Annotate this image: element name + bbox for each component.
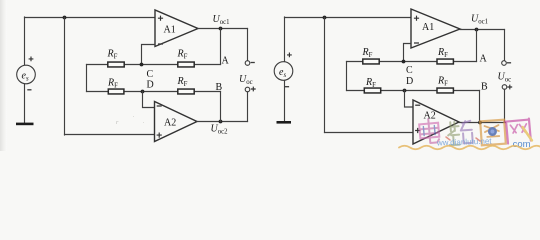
wire left vertical from top rail to source ES2 — [284, 17, 286, 62]
bridge row 1 wire (right circuit) — [347, 61, 477, 63]
svg-text:C: C — [147, 69, 154, 80]
watermark logo 电路图网 — [399, 118, 540, 150]
resistor RF1 (row1 left) — [108, 62, 124, 67]
op-amp A1 — [155, 10, 198, 47]
node Uoc2 junction dot — [219, 120, 223, 124]
svg-text:B: B — [481, 82, 488, 93]
svg-text:D: D — [147, 80, 154, 91]
bridge row 2 wire (right circuit) — [347, 90, 480, 92]
wire node B vertical (row2 down to Uoc2 line) — [220, 92, 222, 122]
wire node B vertical (right circuit) — [479, 91, 481, 123]
wire top rail left circuit — [25, 17, 156, 19]
svg-text:B: B — [216, 82, 223, 93]
wire A2 output — [197, 121, 248, 123]
wire bracket vertical (right circuit) — [346, 62, 348, 91]
bridge row 2 wire (node to D to B) — [87, 91, 221, 93]
svg-text:A1: A1 — [422, 22, 434, 33]
wire bottom rail to A2 noninverting input — [65, 134, 155, 136]
terminal minus (right circuit) — [502, 61, 507, 66]
minus sign at terminal — [251, 62, 255, 63]
voltage source ES2 — [274, 62, 293, 81]
node C junction dot — [140, 63, 144, 67]
resistor Rf4 (row2 right) — [178, 89, 194, 94]
svg-text:D: D — [406, 76, 413, 87]
node junction on top rail — [63, 16, 67, 20]
watermark char1 DIAN — [419, 118, 440, 144]
node D junction dot (right) — [403, 89, 407, 93]
plus sign at terminal — [251, 87, 256, 92]
ghost watermark remnant marks (left circuit) — [116, 113, 145, 126]
svg-text:C: C — [406, 65, 413, 76]
wire bracket vertical joining row1 and row2 — [86, 65, 88, 92]
op-amp A2 — [155, 102, 198, 142]
node Uoc2 junction dot (right) — [478, 121, 482, 125]
plus sign of source ES2 — [287, 53, 292, 58]
minus sign of source ES2 — [285, 86, 289, 87]
ground bar under source ES2 — [277, 121, 292, 124]
wire output corner down to minus terminal (right) — [504, 30, 506, 61]
node Uoc1 junction dot (right) — [475, 28, 479, 32]
resistor RF2 (row1 right) — [178, 62, 194, 67]
wire middle vertical (top rail to bottom rail) — [64, 18, 66, 136]
resistor Rf3 (row2 left) — [108, 89, 124, 94]
wire plus terminal down to Uoc2 line — [247, 92, 249, 122]
ground bar under source ES1 — [16, 123, 34, 126]
wire A1 output — [198, 28, 248, 30]
terminal plus (right circuit) — [502, 85, 507, 90]
wire node D to A2 inverting input — [143, 92, 155, 108]
svg-text:A2: A2 — [424, 111, 436, 122]
resistor Rf4r (row2 right) — [437, 88, 453, 93]
watermark char2 LU — [447, 121, 473, 146]
wire bottom rail to A2r noninverting input — [325, 132, 414, 134]
resistor RF1r (row1 left) — [363, 59, 379, 64]
wire node D to A2r inverting input — [405, 91, 414, 108]
wire below source ES1 — [24, 84, 26, 123]
wire middle vertical (right circuit) — [324, 18, 326, 133]
wire left vertical from top rail to source ES1 — [24, 17, 26, 66]
wire A1r output — [460, 29, 505, 31]
wire A1r inverting input to node C — [404, 44, 412, 62]
wire plus terminal down to Uoc2 line (right) — [504, 89, 506, 122]
watermark underline squiggle — [399, 146, 540, 150]
watermark char3 TU — [480, 120, 506, 146]
voltage source ES1 — [17, 65, 36, 84]
op-amp A2 (right circuit) — [413, 100, 459, 144]
terminal minus (left circuit) — [245, 61, 250, 66]
minus sign at terminal (right) — [507, 62, 511, 63]
plus sign at terminal (right) — [507, 85, 512, 90]
node junction on top rail (right circuit) — [323, 16, 327, 20]
resistor Rf3r (row2 left) — [364, 88, 380, 93]
wire node A vertical (right circuit) — [476, 30, 478, 62]
minus sign of source ES1 — [27, 89, 31, 90]
wire output corner down to minus terminal — [247, 29, 249, 61]
wire below source ES2 — [284, 81, 286, 122]
op-amp A1 (right circuit) — [411, 9, 460, 48]
resistor RF2r (row1 right) — [437, 59, 453, 64]
terminal plus (left circuit) — [245, 87, 250, 92]
node D junction dot — [141, 90, 145, 94]
watermark char4 WANG — [505, 118, 532, 143]
bridge row 1 wire (node to C to A) — [87, 64, 221, 66]
plus sign of source ES1 — [29, 57, 34, 62]
svg-text:A: A — [480, 54, 488, 65]
svg-text:A1: A1 — [164, 25, 176, 36]
wire A2r output — [459, 122, 506, 124]
node Uoc1 junction dot — [219, 27, 223, 31]
wire node A vertical (from Uoc1 down to bridge row 1) — [220, 29, 222, 65]
watermark small red accents — [446, 137, 480, 141]
svg-text:A: A — [222, 56, 230, 67]
wire top rail right circuit — [285, 17, 412, 19]
scan edge shading — [0, 0, 1, 1]
node C junction dot (right) — [402, 60, 406, 64]
wire A1 inverting input to node C — [142, 45, 156, 65]
svg-text:.: . — [133, 113, 135, 119]
svg-text:A2: A2 — [164, 118, 176, 129]
svg-text:.: . — [143, 119, 145, 125]
